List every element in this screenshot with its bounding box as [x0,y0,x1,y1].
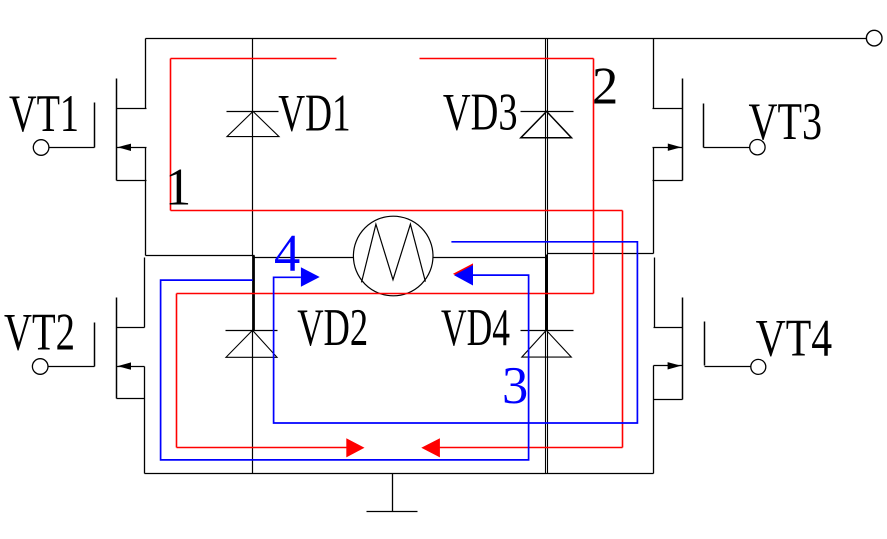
red path bottom left with arrow [177,438,365,457]
right column wire lower pair [546,331,548,474]
label VD3 [443,84,518,142]
blue path 4 polyline [274,242,638,423]
red path segment middle horizontal [177,293,594,295]
svg-text:VT1: VT1 [9,85,79,143]
wire motor right [433,257,546,259]
right column wire thick [545,255,548,331]
red path segment middle upper horizontal [171,210,623,212]
red path segment left vertical [170,59,172,211]
diode VD3 [521,111,574,137]
label VD1 [278,84,350,142]
red path segment outer right vertical [622,211,624,448]
svg-text:VT4: VT4 [756,310,833,368]
svg-text:VD4: VD4 [441,299,510,357]
transistor VT3 [653,39,766,254]
label 2 [592,58,618,116]
svg-text:VT3: VT3 [749,93,823,151]
label VD4 [441,299,510,357]
svg-text:3: 3 [502,357,528,415]
left column wire thick [252,256,255,331]
label VT2 [4,304,75,362]
diode VD1 [227,111,280,136]
red path segment top left [171,58,337,60]
motor M [353,216,433,296]
diode VD4 [521,330,574,357]
ground [367,474,418,512]
svg-text:2: 2 [592,58,618,116]
svg-text:VD2: VD2 [297,299,368,357]
label VT1 [9,85,79,143]
left column wire upper [252,39,254,256]
blue path 3 polyline [161,263,529,460]
svg-text:4: 4 [274,225,300,283]
diode VD2 [226,330,278,357]
node A wire [146,255,255,257]
label VD2 [297,299,368,357]
label 4 [274,225,300,283]
wire motor left [255,257,354,259]
label VT3 [749,93,823,151]
red path segment top right [420,58,594,60]
node B wire [548,253,654,255]
red path bottom right with arrow [421,438,622,457]
right column wire upper pair [546,39,548,255]
svg-text:VT2: VT2 [4,304,75,362]
label 1 [165,159,191,217]
red path segment inner right vertical [593,59,595,294]
transistor VT4 [654,258,766,474]
svg-text:VD3: VD3 [443,84,518,142]
top rail wire [146,38,867,40]
bottom rail wire [145,473,654,475]
red path segment lower left vertical [176,294,178,448]
svg-text:VD1: VD1 [278,84,350,142]
left column wire lower [252,331,254,474]
terminal circle [866,30,882,46]
transistor VT1 [33,39,146,256]
transistor VT2 [32,258,144,474]
label 3 [502,357,528,415]
svg-text:1: 1 [165,159,191,217]
label VT4 [756,310,833,368]
